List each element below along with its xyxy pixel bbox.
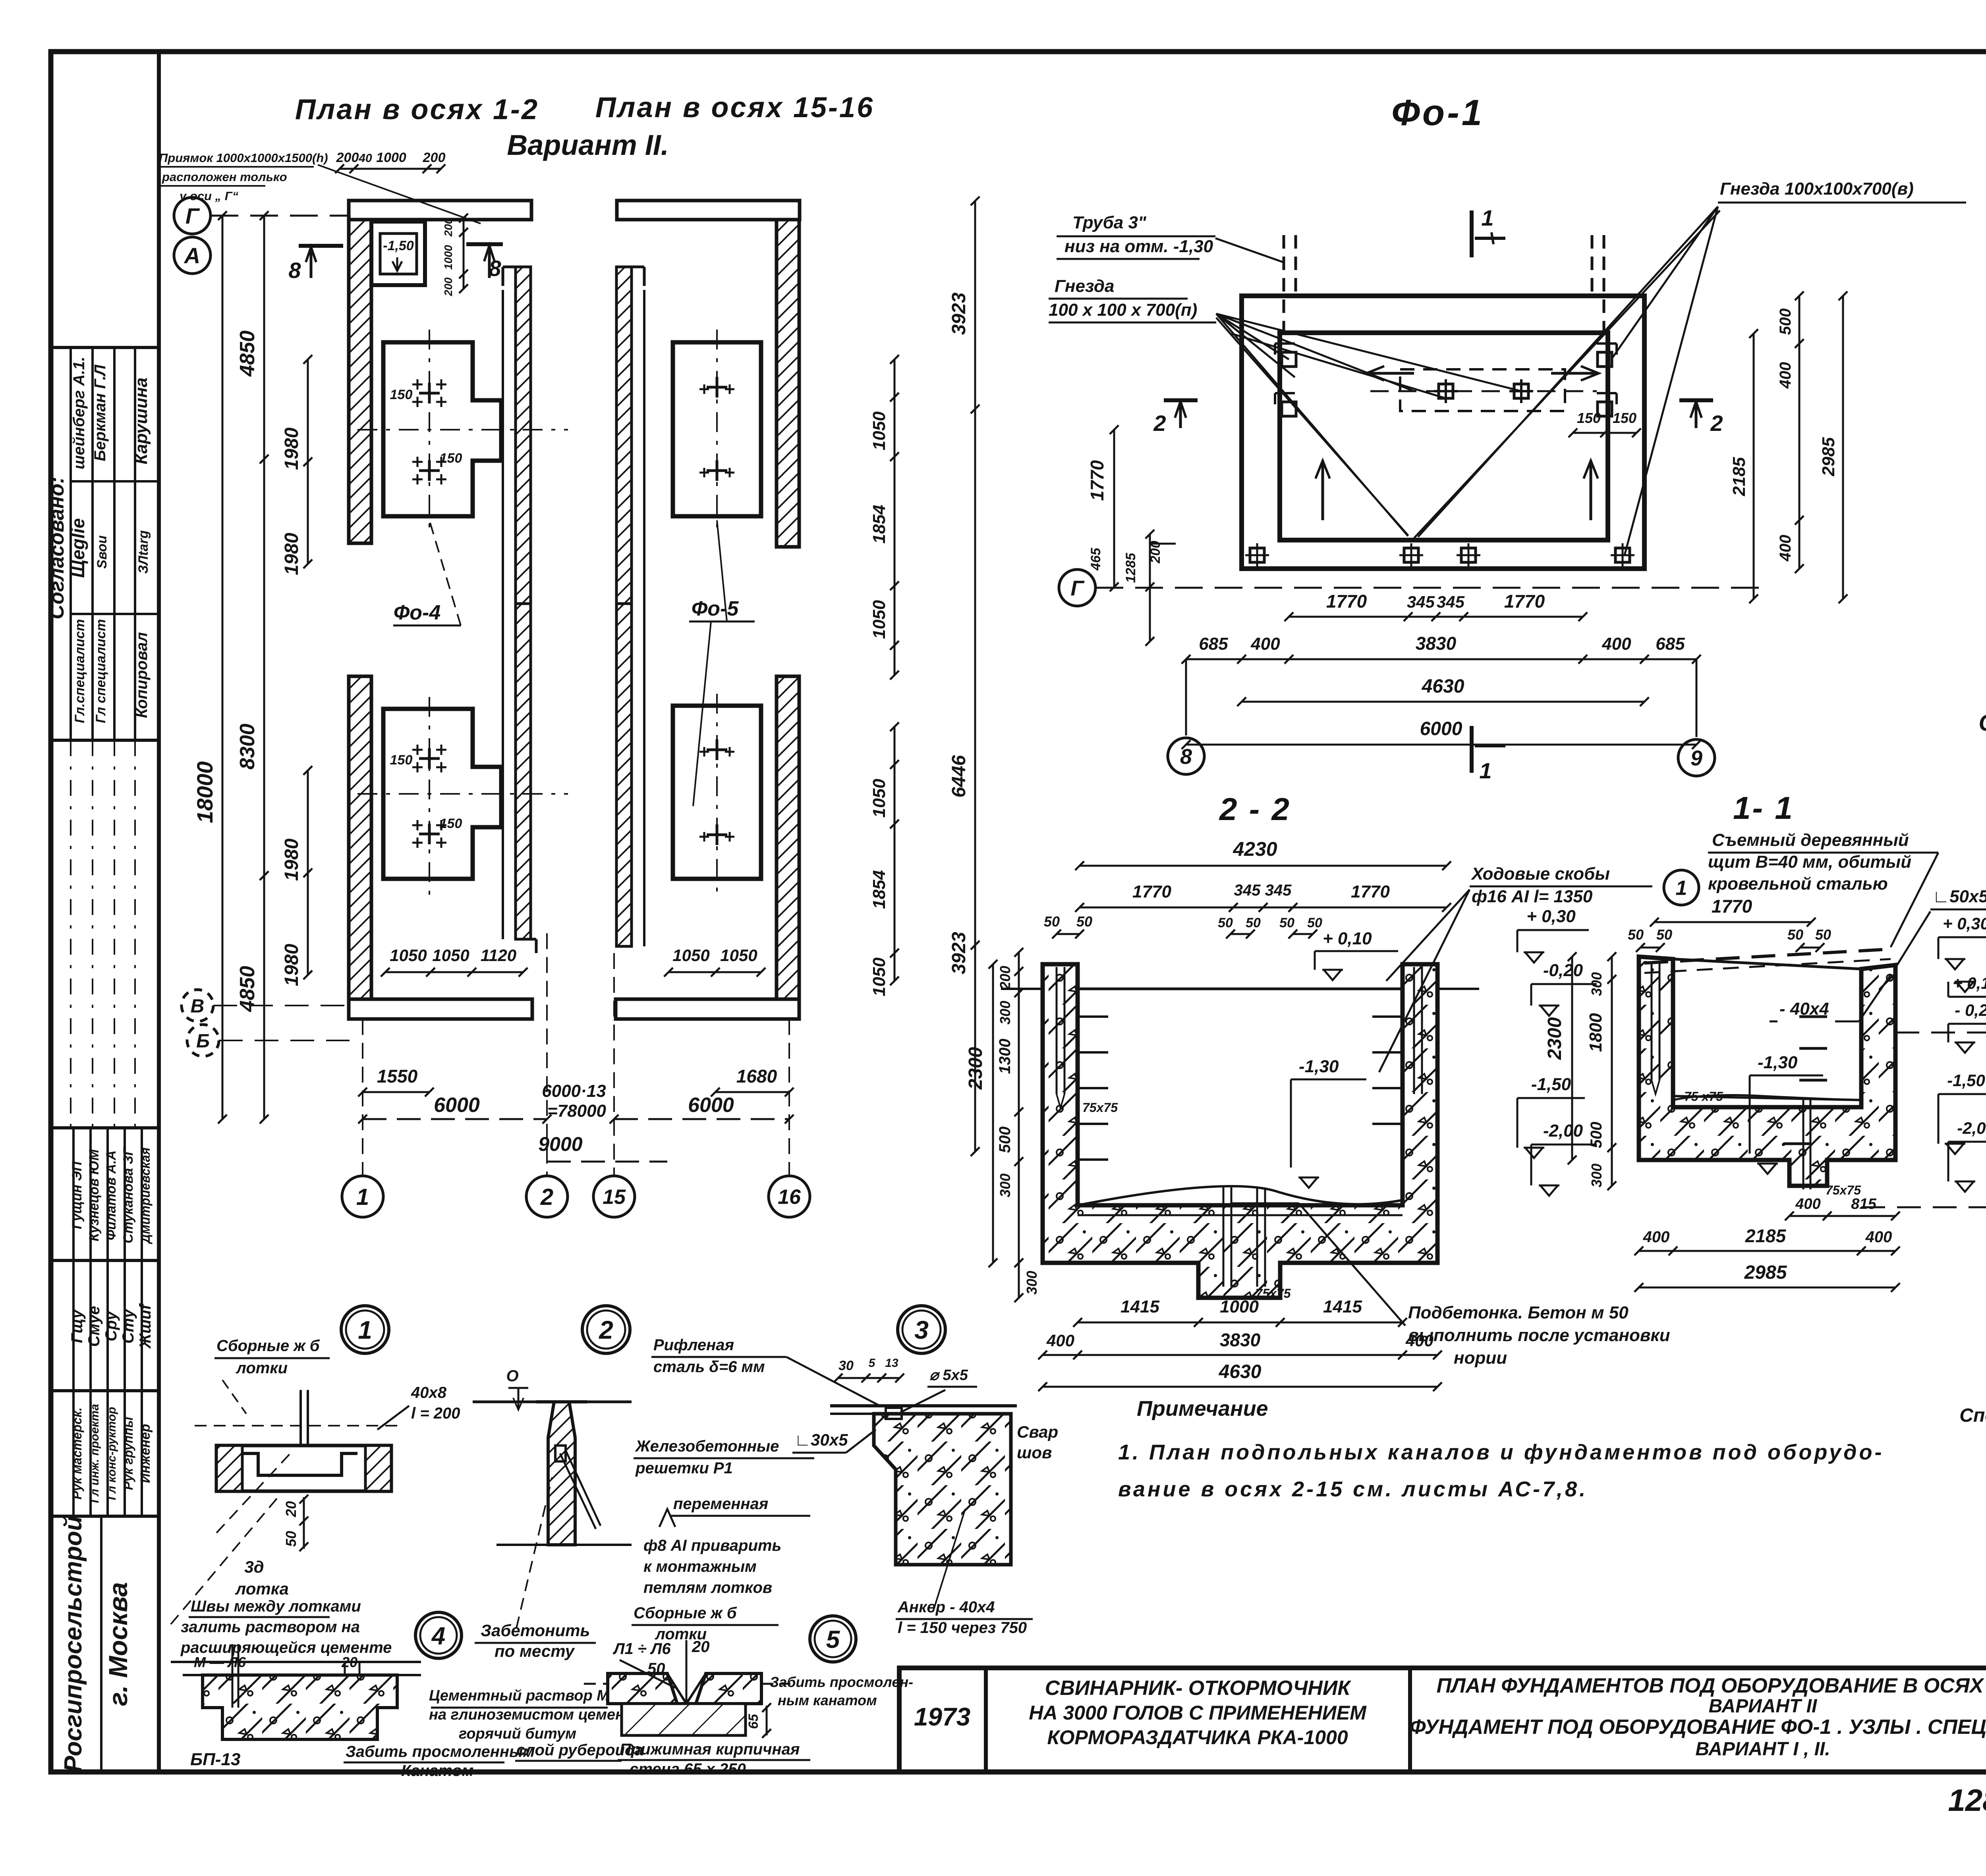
svg-text:1770: 1770: [1712, 896, 1752, 917]
leaders from Гнезда (в): [1613, 207, 1718, 357]
svg-text:1120: 1120: [481, 946, 516, 965]
svg-text:3: 3: [914, 1316, 929, 1344]
svg-text:2: 2: [540, 1184, 553, 1210]
svg-text:30: 30: [838, 1358, 854, 1373]
svg-text:1000: 1000: [1220, 1297, 1259, 1316]
section 2-2 sump bars: [1223, 1187, 1225, 1287]
svg-text:Спецификация фундаментов под: Спецификация фундаментов под оборудовани…: [1979, 710, 1986, 736]
svg-text:-2,00: -2,00: [1543, 1121, 1583, 1141]
svg-text:65: 65: [746, 1714, 761, 1729]
detail5 wedge: [667, 1673, 706, 1704]
svg-text:50: 50: [1279, 915, 1294, 930]
svg-text:500: 500: [1588, 1122, 1605, 1148]
svg-text:685: 685: [1199, 634, 1228, 654]
detail5 brick wall: [622, 1704, 746, 1735]
svg-text:О: О: [506, 1367, 518, 1385]
svg-text:- 0,20: - 0,20: [1955, 1001, 1986, 1019]
svg-text:1000: 1000: [442, 245, 454, 270]
foundation Фо-4 lower anchor clusters: [419, 757, 440, 760]
svg-text:1- 1: 1- 1: [1733, 790, 1794, 826]
svg-text:Рифленая: Рифленая: [653, 1336, 734, 1354]
svg-text:5: 5: [869, 1357, 876, 1370]
dim 1680: [715, 1091, 789, 1093]
wall axis 1 upper segment: [349, 220, 371, 543]
foundation Фо-4 lower centerlines: [429, 697, 430, 896]
svg-text:щит В=40 мм, обитый: щит В=40 мм, обитый: [1708, 852, 1911, 872]
svg-text:- 40х4: - 40х4: [1779, 999, 1829, 1019]
svg-text:1770: 1770: [1087, 460, 1107, 501]
section mark 8 right: [466, 242, 503, 246]
svg-text:18000: 18000: [192, 761, 217, 823]
foundation Фо-4 upper centerlines: [429, 330, 430, 532]
svg-text:1770: 1770: [1504, 591, 1545, 612]
svg-text:Филатов А.А: Филатов А.А: [104, 1150, 119, 1240]
svg-text:Л1 ÷ Л6: Л1 ÷ Л6: [612, 1640, 671, 1658]
svg-text:1300: 1300: [996, 1039, 1014, 1074]
svg-text:по месту: по месту: [495, 1642, 576, 1660]
svg-text:-1,50: -1,50: [1531, 1075, 1571, 1094]
detail1 hatch bits: [216, 1446, 242, 1491]
svg-text:Гл специалист: Гл специалист: [93, 619, 108, 723]
svg-text:40х8: 40х8: [411, 1384, 447, 1401]
svg-text:685: 685: [1656, 634, 1685, 654]
svg-text:20: 20: [341, 1654, 357, 1670]
svg-text:шов: шов: [1017, 1443, 1052, 1462]
svg-text:БП-13: БП-13: [190, 1750, 240, 1769]
detail4 slab: [203, 1675, 397, 1739]
svg-text:2300: 2300: [1544, 1017, 1565, 1060]
dim chain right inner 1050-1854-1050: [894, 359, 896, 675]
section 1-1 ladder marks: [1799, 1015, 1827, 1018]
Фо-1 bottom dim 685-400-3830-400-685: [1186, 658, 1696, 660]
sidebar upper table rows: [71, 480, 159, 483]
svg-text:3923: 3923: [949, 292, 970, 335]
svg-text:Спецификация стали закладных и: Спецификация стали закладных и соедините…: [1959, 1405, 1986, 1426]
svg-text:к монтажным: к монтажным: [643, 1558, 757, 1575]
svg-text:НА 3000 ГОЛОВ С ПРИМЕНЕНИЕМ: НА 3000 ГОЛОВ С ПРИМЕНЕНИЕМ: [1029, 1702, 1367, 1724]
svg-text:-1,30: -1,30: [1299, 1057, 1339, 1076]
svg-text:150: 150: [1577, 410, 1601, 426]
section 2-2 bottom dims 1415-1000-1415: [1078, 1322, 1403, 1324]
svg-text:Гнезда 100х100х700(в): Гнезда 100х100х700(в): [1720, 179, 1914, 199]
svg-text:+ 0,30: + 0,30: [1526, 907, 1576, 926]
sidebar upper table columns: [70, 347, 72, 740]
plan right small dims 200-1000-200: [463, 218, 465, 289]
svg-text:Стуканова ЗГ: Стуканова ЗГ: [121, 1146, 136, 1243]
svg-text:Гл инж. проекта: Гл инж. проекта: [88, 1404, 101, 1503]
Фо-1 center squares: [1439, 384, 1453, 398]
svg-text:1. План подпольных каналов: 1. План подпольных каналов и фундаментов…: [1118, 1440, 1884, 1464]
svg-text:75х75: 75х75: [1082, 1100, 1118, 1115]
svg-text:8: 8: [288, 258, 301, 283]
Фо-1 left dim 1770: [1113, 430, 1115, 587]
svg-text:Свар: Свар: [1017, 1422, 1058, 1441]
dim chain right outer 3923-6446-3923: [974, 201, 976, 1152]
detail 5 circle: [810, 1616, 856, 1662]
dim 1050-1050-1120 strip1: [385, 971, 523, 973]
Фо-1 gnezda squares left: [1282, 352, 1296, 367]
svg-text:ВАРИАНТ I , II.: ВАРИАНТ I , II.: [1695, 1739, 1830, 1760]
svg-text:200: 200: [997, 966, 1013, 990]
section 1-1 concrete body: [1639, 957, 1895, 1186]
svg-text:100 x 100 x 700(п): 100 x 100 x 700(п): [1049, 300, 1197, 320]
section 2-2 concrete body: [1043, 964, 1437, 1298]
svg-text:50: 50: [1076, 913, 1092, 930]
svg-text:16: 16: [778, 1186, 801, 1209]
svg-text:ным канатом: ным канатом: [778, 1692, 877, 1708]
svg-text:345: 345: [1407, 593, 1435, 611]
svg-text:Анкер - 40х4: Анкер - 40х4: [897, 1598, 995, 1616]
leader to priyamok: [318, 165, 481, 224]
svg-text:2: 2: [1153, 411, 1166, 436]
svg-text:Фо-5: Фо-5: [692, 597, 739, 620]
svg-text:сталь δ=6 мм: сталь δ=6 мм: [653, 1358, 765, 1376]
svg-text:2985: 2985: [1744, 1262, 1787, 1283]
svg-text:1: 1: [1479, 758, 1491, 783]
svg-text:М — Л6: М — Л6: [194, 1654, 246, 1670]
svg-text:815: 815: [1851, 1196, 1876, 1212]
svg-text:Гущин ЭП: Гущин ЭП: [70, 1161, 85, 1229]
svg-text:1050: 1050: [390, 946, 427, 965]
svg-text:20: 20: [283, 1501, 299, 1517]
svg-text:выполнить после установки: выполнить после установки: [1408, 1326, 1670, 1345]
svg-text:400: 400: [1865, 1228, 1892, 1246]
svg-text:1: 1: [1676, 877, 1687, 900]
section 1-1 bottom dim 2985: [1639, 1287, 1895, 1289]
svg-text:∟50х5: ∟50х5: [1932, 887, 1986, 906]
svg-text:345: 345: [1234, 882, 1261, 899]
svg-text:2185: 2185: [1745, 1226, 1787, 1246]
section mark 2 left: [1164, 398, 1198, 402]
svg-text:решетки Р1: решетки Р1: [635, 1459, 733, 1477]
Фо-1 left small chain 465-1285-200: [1149, 534, 1151, 641]
svg-text:50: 50: [1815, 926, 1831, 943]
svg-text:-1,50: -1,50: [383, 238, 414, 253]
bottom wall band strip1: [349, 999, 532, 1019]
svg-text:4230: 4230: [1233, 838, 1277, 860]
svg-text:Труба 3": Труба 3": [1072, 213, 1147, 232]
section 1-1 inner cavity outline: [1673, 959, 1861, 969]
svg-text:План в осях 15-16: План в осях 15-16: [595, 92, 874, 124]
Фо-1 right dim chain 500-400: [1799, 296, 1801, 569]
svg-text:1415: 1415: [1323, 1297, 1362, 1316]
axis circle Б: [187, 1025, 219, 1056]
svg-text:Г: Г: [1070, 576, 1085, 600]
svg-text:Дмитриевская: Дмитриевская: [138, 1147, 153, 1244]
section 1-1 top dim 1770: [1654, 921, 1811, 923]
axis circle А: [174, 237, 211, 274]
section 2-2 skoby left: [1056, 967, 1058, 1094]
svg-text:50: 50: [1628, 926, 1644, 943]
svg-text:6446: 6446: [949, 755, 970, 797]
axis line verticals to circles: [362, 1019, 363, 1175]
svg-text:шейнберг А.1.: шейнберг А.1.: [70, 357, 88, 469]
section 1-1 horizontal ref line: [1895, 1032, 1986, 1034]
svg-text:1800: 1800: [1586, 1013, 1605, 1052]
svg-text:кровельной сталью: кровельной сталью: [1708, 874, 1888, 894]
sidebar stamp block lines: [51, 346, 159, 349]
axis circle 1: [342, 1176, 383, 1217]
svg-text:6000: 6000: [688, 1094, 734, 1117]
foundation Фо-4 lower outline: [383, 709, 501, 879]
svg-text:1980: 1980: [281, 838, 302, 881]
Фо-1 bottom dim 1770-345-345-1770: [1289, 616, 1583, 618]
svg-text:20: 20: [692, 1638, 710, 1656]
foundation Фо-5 lower centerline: [716, 694, 718, 896]
svg-text:Канатом: Канатом: [401, 1762, 473, 1779]
dim chain right inner lower: [894, 727, 896, 981]
svg-text:Прижимная кирпичная: Прижимная кирпичная: [620, 1741, 800, 1758]
svg-text:Гл.специалист: Гл.специалист: [72, 619, 87, 723]
svg-text:Росгипросельстрой: Росгипросельстрой: [60, 1516, 87, 1772]
svg-text:50: 50: [1656, 926, 1672, 943]
svg-text:залить раствором на: залить раствором на: [181, 1618, 360, 1636]
svg-text:г. Москва: г. Москва: [103, 1582, 133, 1706]
detail2 column: [536, 1402, 587, 1545]
svg-text:Швы между лотками: Швы между лотками: [191, 1598, 361, 1615]
svg-text:300: 300: [997, 1001, 1013, 1025]
axis circle 9: [1696, 659, 1698, 737]
svg-text:ФУНДАМЕНТ ПОД ОБОРУДОВАНИЕ: ФУНДАМЕНТ ПОД ОБОРУДОВАНИЕ ФО-1 . УЗЛЫ .…: [1410, 1716, 1986, 1739]
detail3 block: [874, 1414, 1011, 1565]
svg-text:50: 50: [1218, 915, 1233, 930]
svg-text:1000: 1000: [376, 150, 406, 165]
svg-text:ф8 АI приварить: ф8 АI приварить: [643, 1537, 781, 1554]
title block outline: [899, 1668, 1986, 1772]
section 2-2 skoby right: [1413, 967, 1415, 1094]
wall axis 16 top band: [617, 201, 800, 220]
axis circle 15: [593, 1176, 635, 1217]
svg-text:нории: нории: [1454, 1348, 1507, 1368]
svg-text:1050: 1050: [869, 411, 889, 450]
axis Г dashed with circle: [1059, 569, 1095, 606]
svg-text:Гщу: Гщу: [68, 1309, 86, 1343]
svg-text:-1,30: -1,30: [1758, 1053, 1798, 1072]
detail 3 circle: [898, 1306, 945, 1353]
svg-text:2 - 2: 2 - 2: [1219, 791, 1291, 827]
svg-text:ЗЛtarg: ЗЛtarg: [136, 530, 151, 574]
section mark 1 bottom: [1470, 726, 1474, 773]
foundation Фо-5 upper anchors: [707, 386, 727, 389]
section 2-2 left ladder marks: [1078, 1015, 1108, 1018]
svg-text:400: 400: [1643, 1228, 1670, 1246]
svg-text:300: 300: [997, 1173, 1013, 1197]
section 2-2 bottom dim 4630: [1043, 1386, 1437, 1388]
dim 4850-8300-4850 line: [263, 216, 265, 1119]
wall axis 15 lower: [616, 604, 632, 946]
svg-text:Карушина: Карушина: [131, 378, 151, 465]
svg-text:345: 345: [1437, 593, 1465, 611]
svg-text:1854: 1854: [869, 505, 889, 544]
svg-text:+ 0,10: + 0,10: [1323, 929, 1372, 948]
leader lines from Гнезда label: [1216, 314, 1289, 359]
section mark 2 right: [1679, 398, 1713, 402]
sidebar lower table columns: [72, 1128, 75, 1516]
section 1-1 left dims: [1571, 957, 1573, 1160]
svg-text:200: 200: [423, 150, 446, 165]
svg-text:Съемный деревянный: Съемный деревянный: [1712, 830, 1909, 850]
svg-text:345: 345: [1265, 882, 1292, 899]
svg-text:+ 0,30: + 0,30: [1943, 914, 1986, 933]
leaders skoby: [1386, 890, 1470, 981]
svg-text:Рук группы: Рук группы: [121, 1417, 135, 1490]
section 1-1 skoby left wall: [1651, 961, 1653, 1080]
wall axis 15 upper: [616, 267, 632, 604]
wall axis 16 lower segment: [777, 676, 799, 999]
svg-text:Г: Г: [185, 203, 200, 228]
svg-text:ВАРИАНТ II: ВАРИАНТ II: [1709, 1696, 1818, 1717]
svg-text:СВИНАРНИК- ОТКОРМОЧНИК: СВИНАРНИК- ОТКОРМОЧНИК: [1045, 1677, 1351, 1700]
svg-text:-1,50: -1,50: [1947, 1071, 1985, 1090]
svg-text:8: 8: [1180, 745, 1192, 768]
svg-text:Жшиf: Жшиf: [137, 1303, 154, 1349]
svg-text:4630: 4630: [1219, 1361, 1262, 1382]
wall axis 16 upper segment: [777, 220, 799, 547]
section 1-1 sump bars: [1802, 1100, 1804, 1189]
wall axis 1 lower segment: [349, 676, 371, 999]
svg-text:Ходовые скобы: Ходовые скобы: [1470, 864, 1610, 884]
Фо-1 big diagonal leaders: [1216, 318, 1408, 535]
svg-text:l = 200: l = 200: [411, 1405, 460, 1422]
svg-text:Рук мастерск.: Рук мастерск.: [70, 1407, 84, 1500]
svg-text:4850: 4850: [236, 330, 259, 377]
svg-text:1980: 1980: [281, 533, 302, 575]
sidebar right edge: [157, 52, 161, 1772]
svg-text:-2,00: -2,00: [1957, 1119, 1986, 1137]
sidebar lower divider: [100, 1516, 102, 1772]
svg-text:1680: 1680: [736, 1066, 777, 1087]
svg-text:1770: 1770: [1326, 591, 1367, 612]
svg-text:1980: 1980: [281, 944, 302, 986]
wall axis 2 lower: [516, 604, 531, 939]
svg-text:150: 150: [390, 387, 413, 402]
svg-text:300: 300: [1024, 1271, 1040, 1295]
svg-text:Забетонить: Забетонить: [481, 1621, 590, 1640]
svg-text:у оси „ Г“: у оси „ Г“: [179, 189, 239, 203]
svg-text:4850: 4850: [236, 966, 259, 1012]
axis circle 8: [1185, 659, 1187, 735]
plan top small dims: [340, 168, 441, 170]
svg-text:2300: 2300: [965, 1047, 986, 1090]
detail2 inner bar: [555, 1446, 566, 1461]
svg-text:расположен только: расположен только: [162, 170, 287, 184]
svg-text:200: 200: [442, 218, 454, 237]
svg-text:400: 400: [1777, 362, 1794, 389]
svg-text:⌀ 5х5: ⌀ 5х5: [929, 1367, 968, 1384]
section 1-1 wooden lid dashed: [1644, 949, 1891, 963]
svg-text:1854: 1854: [869, 870, 889, 909]
svg-text:200: 200: [442, 277, 454, 296]
svg-text:1285: 1285: [1123, 552, 1138, 583]
svg-text:∟30х5: ∟30х5: [794, 1430, 848, 1449]
svg-text:465: 465: [1088, 548, 1103, 571]
svg-text:Согласовано:: Согласовано:: [45, 477, 68, 619]
Фо-1 center crosses: [1434, 390, 1458, 392]
svg-text:150: 150: [440, 451, 462, 466]
wall axis 2 upper: [516, 267, 531, 604]
svg-text:1415: 1415: [1121, 1297, 1159, 1316]
svg-text:В: В: [191, 996, 205, 1017]
detail circle 1: [341, 1306, 389, 1353]
svg-text:400: 400: [1250, 634, 1280, 654]
svg-text:9000: 9000: [538, 1133, 582, 1155]
dim 1980 chain lower: [307, 770, 309, 975]
svg-text:3830: 3830: [1416, 633, 1457, 654]
section 2-2 dim 1770-345-345-1770: [1080, 907, 1447, 909]
svg-text:стена 65 х 250: стена 65 х 250: [630, 1760, 746, 1778]
Фо-1 outer slab outline: [1242, 296, 1644, 569]
svg-text:Фо-4: Фо-4: [394, 601, 441, 624]
foundation Фо-4 upper outline: [383, 342, 501, 516]
svg-text:Сpy: Сpy: [102, 1310, 120, 1341]
svg-text:Вариант II.: Вариант II.: [507, 129, 669, 161]
svg-text:300: 300: [1588, 1164, 1605, 1187]
svg-text:1: 1: [1481, 205, 1493, 230]
Фо-1 right dims 150 150: [1573, 432, 1636, 434]
svg-text:1050: 1050: [432, 946, 469, 965]
section 2-2 top dim 4230: [1080, 865, 1447, 867]
section mark 1 top: [1470, 210, 1474, 257]
svg-text:75х75: 75х75: [1256, 1286, 1291, 1301]
svg-text:Инженер: Инженер: [138, 1424, 153, 1483]
svg-text:400: 400: [1046, 1331, 1074, 1350]
svg-text:6000·13: 6000·13: [542, 1081, 606, 1101]
section 1-1 bottom dims 400-2185-400: [1639, 1250, 1895, 1252]
svg-text:4630: 4630: [1422, 676, 1464, 697]
svg-text:Гнезда: Гнезда: [1055, 276, 1115, 296]
section 1-1 bottom dims 400 815: [1789, 1215, 1827, 1217]
svg-text:Кузнецов ЮМ: Кузнецов ЮМ: [87, 1149, 102, 1241]
section 2-2 interior floor lines: [1078, 988, 1403, 990]
svg-text:А: А: [184, 243, 200, 268]
svg-text:4: 4: [431, 1622, 445, 1650]
Фо-1 right dim 2185 2985: [1753, 334, 1755, 599]
svg-text:Sвои: Sвои: [95, 535, 110, 569]
axis circle В: [182, 990, 213, 1021]
detail 2 circle: [582, 1306, 630, 1353]
svg-text:3923: 3923: [949, 932, 970, 974]
svg-text:13: 13: [885, 1357, 898, 1370]
svg-text:1550: 1550: [377, 1066, 418, 1087]
priyamok pit: [371, 222, 425, 285]
axis circle 2: [526, 1176, 568, 1217]
svg-text:8300: 8300: [236, 724, 259, 770]
dim 6000 strip1: [363, 1118, 547, 1120]
svg-text:Приямок 1000х1000х1500(h): Приямок 1000х1000х1500(h): [159, 151, 328, 165]
foundation Фо-5 upper outline: [673, 342, 761, 516]
axis circle Г: [174, 197, 211, 234]
dim 18000 line: [222, 216, 224, 1119]
svg-text:1050: 1050: [672, 946, 709, 965]
svg-text:12874 -01: 12874 -01: [1948, 1783, 1986, 1818]
sidebar dash-dot gap lines: [70, 740, 71, 1128]
svg-text:на глиноземистом цементе: на глиноземистом цементе: [429, 1706, 646, 1723]
svg-text:75 х75: 75 х75: [1684, 1089, 1723, 1104]
svg-text:6000: 6000: [1420, 718, 1462, 739]
svg-text:КОРМОРАЗДАТЧИКА РКА-1000: КОРМОРАЗДАТЧИКА РКА-1000: [1047, 1726, 1348, 1749]
svg-text:l = 150 через 750: l = 150 через 750: [898, 1619, 1027, 1637]
svg-text:150: 150: [1613, 410, 1636, 426]
svg-text:Примечание: Примечание: [1137, 1397, 1268, 1421]
svg-text:1050: 1050: [869, 600, 889, 639]
svg-text:5: 5: [826, 1626, 840, 1653]
dim 1550: [363, 1091, 429, 1093]
Фо-1 bottom dim 6000: [1186, 744, 1696, 746]
detail3 angle bits: [872, 1414, 875, 1446]
svg-text:9: 9: [1690, 746, 1702, 770]
svg-text:1980: 1980: [281, 427, 302, 470]
svg-text:лотки: лотки: [236, 1359, 288, 1377]
